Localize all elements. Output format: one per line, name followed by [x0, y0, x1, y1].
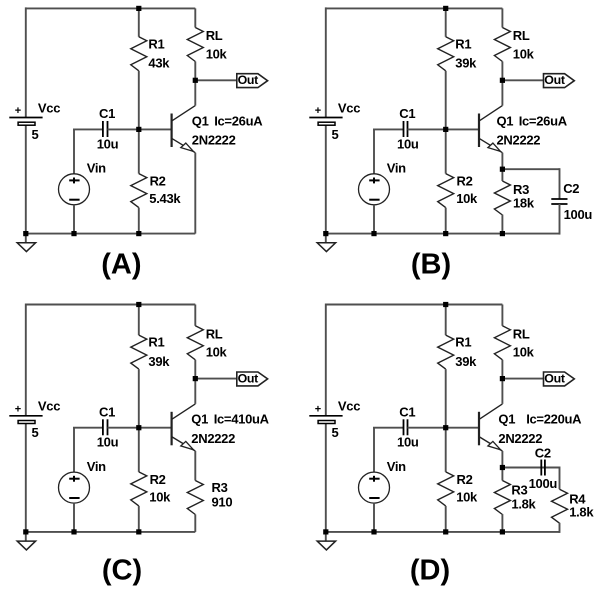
label Vcc value 5 [32, 127, 39, 142]
svg-text:RL: RL [206, 28, 223, 43]
label Vin [387, 161, 406, 176]
label C1 [99, 405, 115, 420]
wire C1 to base [108, 427, 172, 429]
ground [317, 532, 335, 550]
svg-text:10u: 10u [97, 435, 119, 450]
svg-text:Vin: Vin [87, 459, 106, 474]
svg-text:Out: Out [544, 73, 565, 87]
junction out node [193, 78, 198, 83]
wire Vin bottom [373, 503, 375, 532]
label R1 value 39k [455, 354, 477, 369]
svg-text:C1: C1 [99, 106, 115, 121]
svg-text:43k: 43k [148, 56, 170, 71]
svg-text:R1: R1 [148, 335, 164, 350]
wire emitter [501, 451, 503, 468]
voltage source Vin [59, 472, 90, 503]
resistor R2 [131, 428, 147, 532]
resistor R2 [438, 129, 454, 233]
wire Vin bottom [373, 205, 375, 234]
port Out [544, 73, 575, 87]
label Q1 type 2N2222 [497, 133, 541, 148]
label Q1 type 2N2222 [191, 431, 235, 446]
wire C2 bottom [559, 204, 561, 235]
capacitor C1 [103, 419, 108, 435]
label C2 [563, 181, 579, 196]
wire out node to Out port [502, 79, 543, 81]
svg-text:R3: R3 [511, 482, 527, 497]
voltage source Vin [359, 472, 390, 503]
junction base node [136, 127, 141, 132]
battery Vcc [309, 118, 342, 126]
label RL value 10k [206, 345, 228, 360]
label C2 value 100u [564, 207, 593, 222]
caption (B) [411, 248, 451, 280]
label RL [206, 28, 223, 43]
battery Vcc [309, 416, 342, 424]
svg-text:C1: C1 [99, 405, 115, 420]
label RL [513, 326, 530, 341]
label Vcc plus sign [15, 404, 21, 416]
voltage source Vin [359, 174, 390, 205]
wire C2 top [559, 168, 561, 199]
wire Vin to C1 [73, 427, 103, 429]
junction ground left [323, 529, 328, 534]
junction R3 bottom [500, 231, 505, 236]
svg-text:R1: R1 [455, 335, 471, 350]
label R4 [569, 491, 586, 506]
battery Vcc [9, 416, 42, 424]
wire collector [501, 80, 503, 105]
junction emitter node [500, 167, 505, 172]
svg-text:Vin: Vin [387, 161, 406, 176]
wire top rail [326, 304, 503, 306]
svg-text:C1: C1 [399, 106, 415, 121]
label RL [206, 326, 223, 341]
label Vcc value 5 [32, 425, 39, 440]
port Out [237, 73, 268, 87]
wire emitter to ground rail [194, 153, 196, 234]
wire left rail lower (Vcc to ground) [325, 424, 327, 532]
capacitor C1 [404, 121, 408, 137]
svg-text:39k: 39k [148, 354, 170, 369]
svg-text:10k: 10k [456, 490, 478, 505]
svg-text:Out: Out [238, 73, 259, 87]
label R2 value 10k [456, 191, 478, 206]
junction base node [443, 425, 448, 430]
svg-text:39k: 39k [455, 56, 477, 71]
label Vcc value 5 [332, 425, 339, 440]
wire left rail upper (Vcc to top) [325, 7, 327, 117]
transistor Q1 [172, 106, 196, 153]
junction R2 bottom [443, 231, 448, 236]
svg-text:RL: RL [206, 326, 223, 341]
label Vcc [338, 100, 360, 115]
resistor R3 [187, 481, 203, 532]
port Out [237, 372, 268, 386]
label Q1 [192, 113, 209, 128]
capacitor C1 [103, 121, 108, 137]
wire emitter node to C2 [502, 168, 559, 170]
svg-text:1.8k: 1.8k [569, 505, 594, 520]
wire left rail upper (Vcc to top) [25, 7, 27, 117]
wire Vin to C1 [373, 128, 404, 130]
wire emitter [501, 153, 503, 170]
wire C1 to base [408, 128, 480, 130]
svg-text:(D): (D) [410, 554, 450, 586]
svg-text:(B): (B) [411, 248, 451, 280]
svg-text:Ic=410uA: Ic=410uA [214, 412, 270, 427]
label R1 [455, 335, 471, 350]
label R4 value 1.8k [569, 505, 594, 520]
label R2 [150, 472, 166, 487]
label C1 value 10u [397, 136, 419, 151]
junction base node [136, 425, 141, 430]
label Q1 current Ic=26uA [214, 113, 263, 128]
svg-text:5: 5 [32, 127, 39, 142]
svg-text:C2: C2 [535, 446, 551, 461]
label Vcc plus sign [315, 105, 321, 117]
junction out node [500, 78, 505, 83]
wire left rail lower (Vcc to ground) [25, 125, 27, 233]
label Vin [387, 459, 406, 474]
junction Vin bottom [71, 231, 76, 236]
svg-text:Ic=26uA: Ic=26uA [214, 113, 263, 128]
svg-text:1.8k: 1.8k [511, 497, 536, 512]
caption (D) [410, 554, 450, 586]
junction base node [443, 127, 448, 132]
resistor R1 [131, 305, 147, 428]
junction R2 bottom [136, 231, 141, 236]
junction ground left [23, 529, 28, 534]
wire R4 top [559, 467, 561, 490]
svg-text:+: + [15, 105, 21, 117]
label Q1 [191, 412, 208, 427]
junction ground left [323, 231, 328, 236]
junction top rail / R1 [136, 6, 141, 11]
wire left rail lower (Vcc to ground) [25, 424, 27, 532]
label Vcc value 5 [332, 127, 339, 142]
svg-text:Vcc: Vcc [38, 399, 60, 414]
wire collector [501, 379, 503, 404]
label RL value 10k [513, 345, 535, 360]
wire left rail upper (Vcc to top) [25, 304, 27, 416]
ground [317, 234, 335, 252]
resistor R3 [494, 468, 510, 532]
svg-text:Ic=26uA: Ic=26uA [519, 113, 568, 128]
svg-text:10u: 10u [397, 435, 419, 450]
label C1 [399, 106, 415, 121]
label C1 [99, 106, 115, 121]
label Q1 current Ic=26uA [519, 113, 568, 128]
svg-text:910: 910 [212, 494, 233, 509]
wire bottom rail [325, 233, 560, 235]
svg-text:Q1: Q1 [497, 113, 514, 128]
resistor RL [494, 8, 510, 80]
svg-text:R1: R1 [455, 36, 471, 51]
label R3 [511, 482, 527, 497]
label Q1 type 2N2222 [192, 133, 236, 148]
junction R2 bottom [443, 529, 448, 534]
svg-text:2N2222: 2N2222 [498, 431, 542, 446]
wire out node to Out port [195, 378, 237, 380]
resistor RL [494, 305, 510, 379]
circuit C [9, 302, 269, 586]
voltage source Vin [59, 174, 90, 205]
label Vcc plus sign [15, 105, 21, 117]
svg-text:RL: RL [513, 28, 530, 43]
wire Vin to C1 [373, 427, 404, 429]
capacitor C1 [404, 419, 408, 435]
svg-text:10k: 10k [149, 490, 171, 505]
label R2 value 5.43k [149, 191, 181, 206]
label R1 [148, 335, 164, 350]
resistor R4 [552, 489, 568, 533]
label Vcc plus sign [315, 404, 321, 416]
capacitor C2 [551, 199, 567, 204]
svg-text:10u: 10u [397, 136, 419, 151]
label C1 value 10u [97, 136, 119, 151]
label R3 value 1.8k [511, 497, 536, 512]
wire C1 to base [108, 128, 172, 130]
svg-text:39k: 39k [455, 354, 477, 369]
label R3 [212, 480, 228, 495]
svg-text:(C): (C) [102, 554, 142, 586]
svg-text:5.43k: 5.43k [149, 191, 181, 206]
svg-text:R1: R1 [148, 36, 164, 51]
label Vcc [38, 399, 60, 414]
wire left rail upper (Vcc to top) [325, 304, 327, 416]
svg-text:Q1: Q1 [191, 412, 208, 427]
svg-text:10k: 10k [206, 345, 228, 360]
svg-text:Out: Out [238, 372, 259, 386]
circuit D [309, 302, 594, 586]
svg-text:R2: R2 [457, 472, 473, 487]
junction R2 bottom [136, 529, 141, 534]
circuit B [309, 6, 592, 281]
transistor Q1 [479, 404, 502, 451]
label R2 value 10k [149, 490, 171, 505]
label R1 [148, 36, 164, 51]
svg-text:5: 5 [332, 127, 339, 142]
svg-text:C1: C1 [399, 405, 415, 420]
svg-text:Ic=220uA: Ic=220uA [526, 412, 582, 427]
svg-text:Q1: Q1 [498, 412, 515, 427]
resistor R1 [438, 305, 454, 428]
wire left rail lower (Vcc to ground) [325, 125, 327, 233]
label Vin [87, 161, 106, 176]
svg-text:R3: R3 [212, 480, 228, 495]
caption (A) [101, 248, 141, 280]
svg-text:Q1: Q1 [192, 113, 209, 128]
junction top rail / R1 [136, 302, 141, 307]
label Q1 [498, 412, 515, 427]
svg-text:Vcc: Vcc [38, 100, 60, 115]
wire collector [194, 80, 196, 105]
svg-text:R2: R2 [457, 174, 473, 189]
label Q1 [497, 113, 514, 128]
svg-text:+: + [15, 404, 21, 416]
svg-text:10k: 10k [456, 191, 478, 206]
junction Vin bottom [71, 529, 76, 534]
label R1 value 39k [148, 354, 170, 369]
ground [17, 234, 35, 252]
wire top rail [26, 7, 196, 9]
resistor R1 [131, 8, 147, 129]
svg-text:Vcc: Vcc [338, 399, 360, 414]
label Q1 type 2N2222 [498, 431, 542, 446]
circuit A [9, 6, 267, 281]
transistor Q1 [172, 404, 196, 451]
junction top rail / R1 [443, 302, 448, 307]
label C2 value 100u [529, 476, 558, 491]
resistor R3 [494, 169, 510, 233]
label RL value 10k [206, 46, 228, 61]
junction top rail / R1 [443, 6, 448, 11]
wire top rail [326, 7, 503, 9]
label RL value 10k [513, 46, 535, 61]
svg-text:(A): (A) [101, 248, 141, 280]
label Vcc [38, 100, 60, 115]
label R3 value 18k [513, 195, 535, 210]
wire top rail [26, 304, 196, 306]
battery Vcc [9, 118, 42, 126]
wire bottom rail [25, 233, 196, 235]
label R2 [457, 174, 473, 189]
svg-text:R2: R2 [150, 174, 166, 189]
svg-text:Vin: Vin [387, 459, 406, 474]
svg-text:5: 5 [332, 425, 339, 440]
label R2 [457, 472, 473, 487]
wire emitter node to R4 [502, 467, 559, 469]
wire bottom rail [25, 531, 196, 533]
svg-text:5: 5 [32, 425, 39, 440]
resistor R2 [131, 129, 147, 233]
svg-text:2N2222: 2N2222 [192, 133, 236, 148]
wire out node to Out port [502, 378, 543, 380]
label R1 value 43k [148, 56, 170, 71]
svg-text:C2: C2 [563, 181, 579, 196]
wire out node to Out port [195, 79, 237, 81]
label R3 value 910 [212, 494, 233, 509]
junction R3 bottom [500, 529, 505, 534]
svg-text:2N2222: 2N2222 [497, 133, 541, 148]
resistor R1 [438, 8, 454, 129]
junction out node [193, 376, 198, 381]
wire Vin top [73, 428, 75, 472]
wire emitter [194, 451, 196, 481]
capacitor C2 [541, 460, 545, 476]
wire Vin to C1 [73, 128, 103, 130]
resistor R2 [438, 428, 454, 532]
wire Vin top [373, 129, 375, 173]
wire Vin top [373, 428, 375, 472]
label R2 [150, 174, 166, 189]
junction Vin bottom [371, 529, 376, 534]
svg-text:R2: R2 [150, 472, 166, 487]
svg-text:100u: 100u [564, 207, 593, 222]
label R1 value 39k [455, 56, 477, 71]
svg-text:Vcc: Vcc [338, 100, 360, 115]
junction emitter node [500, 465, 505, 470]
junction Vin bottom [371, 231, 376, 236]
transistor Q1 [479, 106, 502, 153]
caption (C) [102, 554, 142, 586]
svg-text:10u: 10u [97, 136, 119, 151]
ground [17, 532, 35, 550]
label Vcc [338, 399, 360, 414]
label R2 value 10k [456, 490, 478, 505]
junction out node [500, 376, 505, 381]
svg-text:2N2222: 2N2222 [191, 431, 235, 446]
label C1 value 10u [397, 435, 419, 450]
label R3 [513, 182, 529, 197]
wire Vin top [73, 129, 75, 173]
label C1 [399, 405, 415, 420]
label R1 [455, 36, 471, 51]
svg-text:Out: Out [544, 372, 565, 386]
svg-text:10k: 10k [206, 46, 228, 61]
label RL [513, 28, 530, 43]
svg-text:RL: RL [513, 326, 530, 341]
label C1 value 10u [97, 435, 119, 450]
resistor RL [187, 305, 203, 379]
label Vin [87, 459, 106, 474]
resistor RL [187, 8, 203, 80]
wire C1 to base [408, 427, 480, 429]
label C2 [535, 446, 551, 461]
label Q1 current Ic=220uA [526, 412, 582, 427]
svg-text:18k: 18k [513, 195, 535, 210]
wire collector [194, 379, 196, 404]
wire Vin bottom [73, 503, 75, 532]
svg-text:+: + [315, 105, 321, 117]
label Q1 current Ic=410uA [214, 412, 270, 427]
svg-text:+: + [315, 404, 321, 416]
svg-text:100u: 100u [529, 476, 558, 491]
svg-text:Vin: Vin [87, 161, 106, 176]
svg-text:10k: 10k [513, 46, 535, 61]
wire bottom rail [325, 531, 560, 533]
junction ground left [23, 231, 28, 236]
wire Vin bottom [73, 205, 75, 234]
port Out [544, 372, 575, 386]
svg-text:10k: 10k [513, 345, 535, 360]
